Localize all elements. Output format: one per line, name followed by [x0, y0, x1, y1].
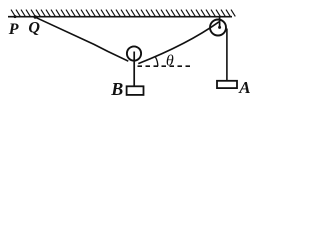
- axle dot: [218, 26, 221, 29]
- fixed pulley circle: [210, 20, 226, 36]
- wire string pulley to fixed pulley: [138, 22, 219, 64]
- ceiling hatching: [11, 10, 235, 17]
- svg-text:B: B: [110, 79, 123, 99]
- angle arc: [156, 57, 158, 66]
- anchor dot Q: [34, 15, 37, 18]
- wire hanger to block B: [133, 52, 135, 88]
- block A: [217, 81, 237, 88]
- anchor dot P: [14, 15, 17, 18]
- svg-text:A: A: [238, 78, 250, 97]
- movable pulley circle: [127, 46, 141, 60]
- wire string Q to movable pulley: [35, 17, 128, 61]
- ceiling line: [8, 16, 232, 18]
- svg-text:Q: Q: [28, 20, 40, 37]
- svg-text:θ: θ: [166, 52, 174, 69]
- dashed horizontal reference line: [138, 65, 194, 67]
- svg-text:P: P: [8, 21, 19, 38]
- wire string to block A: [226, 29, 228, 82]
- wire hanger fixed pulley: [219, 17, 221, 28]
- block B: [127, 86, 144, 95]
